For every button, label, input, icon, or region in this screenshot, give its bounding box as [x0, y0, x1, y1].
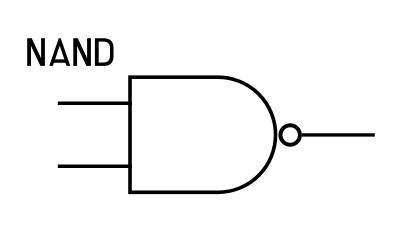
wire input A	[58, 102, 132, 106]
wire output	[302, 133, 375, 136]
inversion bubble	[281, 125, 300, 144]
label NAND	[27, 38, 113, 66]
AND-gate body U1	[130, 77, 276, 192]
wire input B	[58, 164, 132, 168]
